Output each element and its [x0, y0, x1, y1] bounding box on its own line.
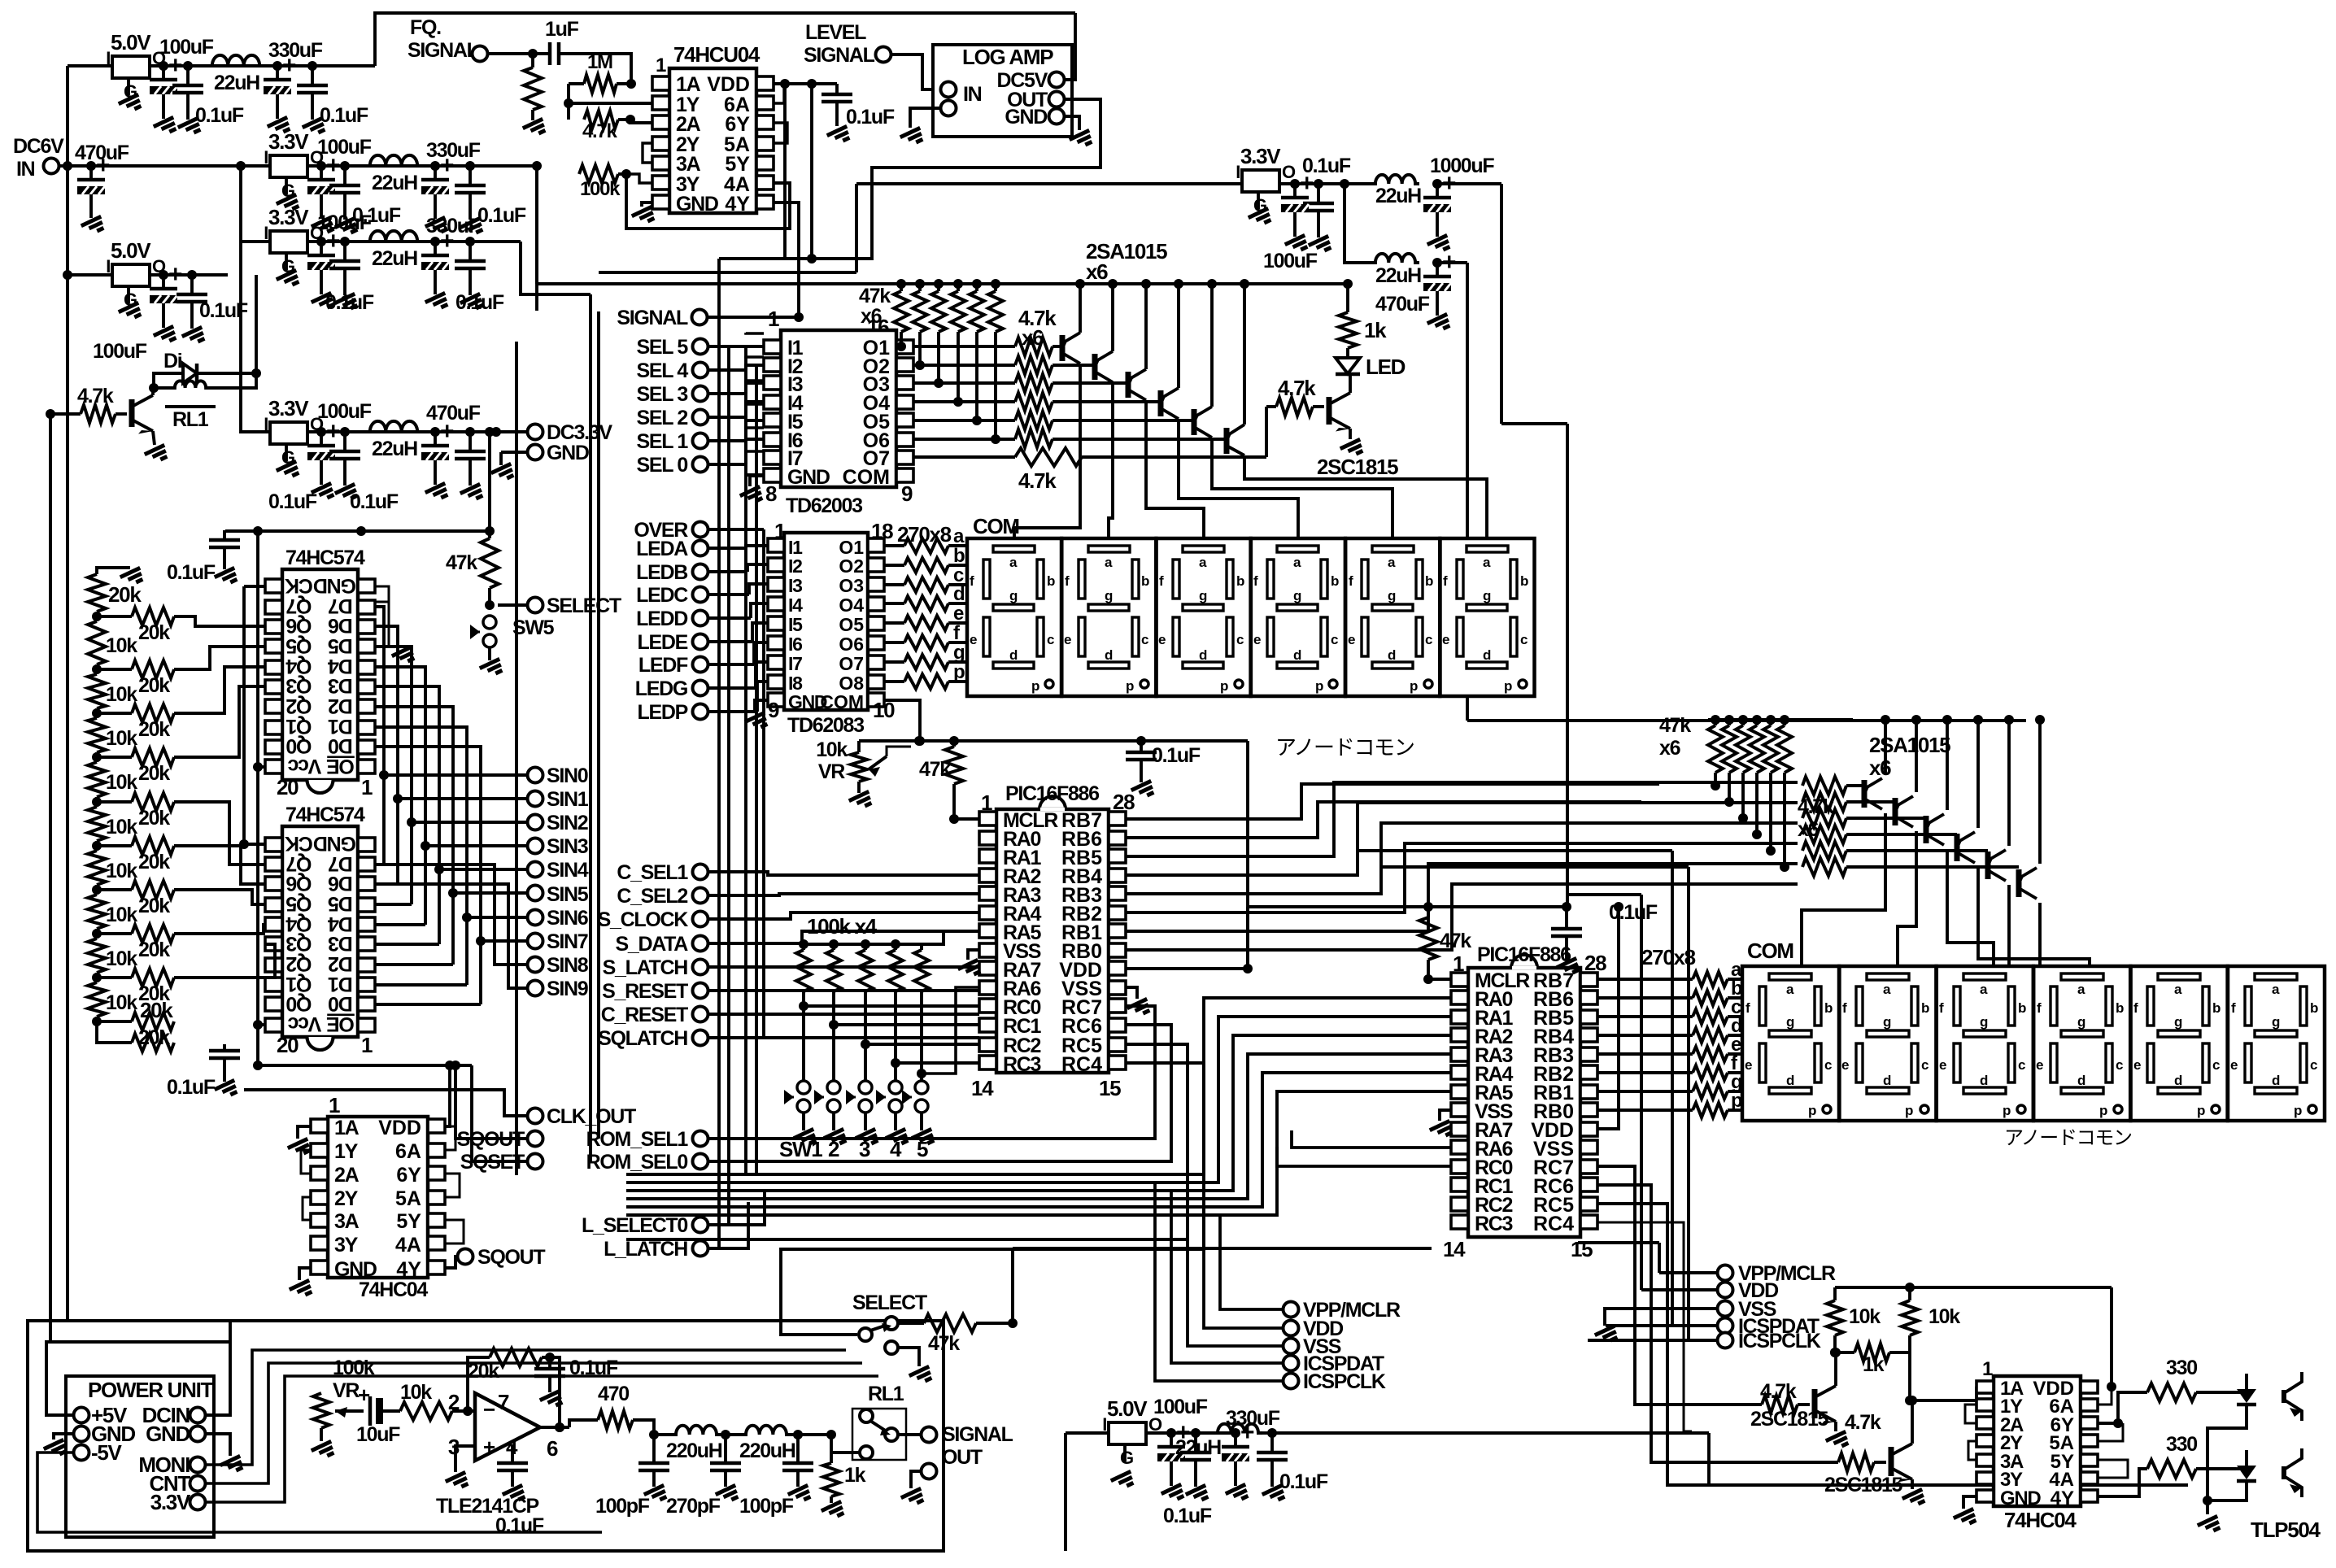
resistor 47k x6 #3: [931, 279, 946, 388]
label 100k x4: [807, 914, 878, 939]
node SQOUT terminal pair: [457, 1128, 543, 1151]
svg-text:1k: 1k: [844, 1464, 866, 1487]
wire tlp2 gnd: [2198, 1492, 2247, 1535]
svg-text:1k: 1k: [1863, 1353, 1885, 1376]
svg-text:Q5: Q5: [285, 892, 312, 915]
svg-text:p: p: [2003, 1103, 2011, 1118]
transistor 2SA1015 #2-2: [1894, 796, 1913, 827]
svg-text:d: d: [2272, 1073, 2280, 1088]
resistor 4.7k q2: [1838, 1411, 1886, 1471]
resistor 10k ladder 1: [88, 616, 137, 669]
transistor 2SA1015 #4: [1160, 388, 1179, 419]
svg-text:100uF: 100uF: [93, 340, 147, 363]
transistor 2SA1015 #1: [1061, 333, 1080, 364]
resistor 100k sw1: [796, 939, 811, 1087]
wire reg6 in: [599, 184, 1242, 272]
node DC6V IN terminal: [13, 135, 68, 181]
node LEDA terminal: [636, 538, 768, 560]
capacitor 330uF reg3: [421, 215, 481, 312]
svg-text:c: c: [1425, 632, 1432, 647]
svg-text:Vcc: Vcc: [287, 1013, 321, 1035]
resistor 10k ladder 6: [88, 846, 137, 890]
resistor 4.7k base #4: [1015, 393, 1161, 411]
svg-text:LEDB: LEDB: [636, 561, 687, 584]
svg-text:Q0: Q0: [286, 734, 312, 757]
svg-text:Q4: Q4: [285, 655, 312, 677]
IC 74HC04 #2: [1976, 1358, 2098, 1532]
resistor 47k2 #6: [1777, 715, 1792, 872]
wire VDD rail pic1: [859, 736, 1248, 746]
node VPP/MCLR right terminal: [1659, 1262, 1836, 1285]
node ICSPCLK left terminal: [1283, 1370, 1386, 1393]
wire ladder to 574b 5: [174, 846, 265, 884]
wire D1 route 2: [375, 647, 527, 904]
svg-text:DC3.3V: DC3.3V: [547, 421, 612, 444]
svg-text:22uH: 22uH: [214, 72, 259, 94]
svg-text:+: +: [326, 228, 340, 255]
capacitor 0.1uF reg1b: [297, 66, 368, 137]
svg-text:POWER UNIT: POWER UNIT: [88, 1378, 214, 1402]
svg-text:+: +: [326, 418, 340, 445]
svg-text:100pF: 100pF: [739, 1495, 794, 1518]
wire hcu04 right loops: [774, 84, 787, 143]
svg-text:1: 1: [1982, 1358, 1993, 1380]
svg-text:47k: 47k: [1659, 714, 1691, 737]
node LEDC terminal: [636, 584, 768, 607]
resistor 270 #2 seg p: [1597, 1090, 1745, 1117]
node OVER terminal: [634, 519, 764, 542]
svg-text:VDD: VDD: [707, 73, 750, 96]
svg-text:+: +: [440, 152, 454, 179]
wire pic2 left bundle 2: [626, 1035, 1451, 1191]
svg-text:9: 9: [901, 481, 913, 506]
label TLP504: [2251, 1518, 2321, 1542]
diode Di: [154, 275, 261, 388]
svg-text:4.7k: 4.7k: [1278, 376, 1316, 400]
ground TD62083: [745, 700, 769, 732]
svg-text:+: +: [1300, 170, 1314, 197]
svg-text:SIGNAL: SIGNAL: [407, 39, 479, 62]
svg-text:SIGNAL: SIGNAL: [942, 1423, 1013, 1446]
svg-text:47k: 47k: [919, 758, 951, 781]
op-amp TLE2141CP: [436, 1390, 558, 1518]
svg-text:3Y: 3Y: [334, 1234, 359, 1257]
capacitor 100pF #1: [595, 1430, 669, 1518]
svg-text:c: c: [1921, 1057, 1929, 1073]
node SIN2 terminal: [528, 812, 588, 834]
svg-text:b: b: [1331, 573, 1339, 589]
wire pic1 bundle 3: [1126, 843, 1798, 912]
label 47k x6: [859, 285, 891, 328]
svg-text:d: d: [1293, 647, 1301, 663]
node SIN1 terminal: [528, 788, 589, 811]
svg-text:b: b: [1236, 573, 1244, 589]
wire gnd574a: [375, 586, 416, 666]
svg-text:10k: 10k: [106, 904, 137, 926]
wire SEL jog 0: [746, 333, 764, 333]
resistor 47k2 #3: [1736, 715, 1750, 823]
wire SEL jog 4: [746, 425, 764, 428]
display 7seg row1 #4: [1251, 538, 1345, 696]
wire seg2 c to displays: [1745, 1015, 1754, 1018]
wire O2 row: [913, 364, 1015, 367]
svg-text:1A: 1A: [676, 73, 701, 96]
resistor 47k x6 #4: [951, 279, 965, 407]
node CNT powerunit: [149, 1471, 205, 1496]
svg-text:-5V: -5V: [91, 1440, 123, 1465]
node 3.3V powerunit: [150, 1490, 206, 1514]
wire hcu04 vdd: [774, 79, 837, 264]
wire pic2 rc5 down: [1597, 1204, 1709, 1485]
svg-text:b: b: [2212, 1000, 2221, 1016]
wire ladder to 574a 2: [174, 667, 265, 713]
svg-text:20k: 20k: [138, 851, 170, 873]
node DCIN powerunit: [142, 1403, 206, 1427]
svg-text:LEDC: LEDC: [636, 584, 688, 607]
svg-text:SIN6: SIN6: [547, 907, 588, 930]
svg-text:3.3V: 3.3V: [150, 1490, 191, 1514]
svg-text:GND: GND: [314, 832, 356, 855]
ground log amp in: [900, 108, 941, 147]
svg-text:p: p: [1410, 678, 1418, 694]
capacitor 0.1uF pic1: [1126, 741, 1201, 800]
wire ctrl5 to pic1: [708, 989, 979, 992]
svg-text:D2: D2: [329, 695, 353, 717]
wire D1 route 7: [375, 747, 527, 1004]
svg-text:OUT: OUT: [942, 1446, 983, 1469]
inductor 22uH reg6a: [1371, 175, 1421, 207]
capacitor 0.1uF reg6: [1302, 155, 1351, 255]
svg-text:g: g: [2272, 1014, 2280, 1030]
svg-text:D5: D5: [328, 634, 353, 657]
svg-text:GND: GND: [547, 442, 589, 464]
node C_SEL2 terminal: [617, 885, 708, 908]
svg-text:2SC1815: 2SC1815: [1317, 455, 1398, 479]
display 7seg row2 #5: [2131, 966, 2228, 1121]
wire O5 row: [913, 419, 1015, 422]
svg-text:3.3V: 3.3V: [1240, 144, 1281, 168]
svg-text:p: p: [2099, 1103, 2107, 1118]
capacitor 100uF reg5: [93, 261, 182, 363]
resistor 270 #2 seg b: [1597, 978, 1745, 1005]
svg-text:GND: GND: [146, 1422, 190, 1446]
svg-text:D7: D7: [329, 852, 353, 875]
resistor 270 #2 seg d: [1597, 1015, 1745, 1043]
resistor 4.7k2 base 6: [1802, 858, 2019, 876]
wire ck bus 574: [239, 586, 265, 849]
wire 74hc04a vdd: [253, 1061, 472, 1126]
wire D bus a1: [375, 625, 396, 628]
svg-text:6: 6: [547, 1436, 558, 1461]
svg-text:10k: 10k: [1929, 1305, 1960, 1328]
node MONI powerunit: [138, 1453, 205, 1477]
ground SW1: [794, 1113, 818, 1148]
svg-text:TD62083: TD62083: [787, 714, 864, 737]
svg-text:3.3V: 3.3V: [268, 396, 309, 420]
svg-text:g: g: [1388, 588, 1396, 603]
node SIGNAL OUT gnd terminal: [901, 1464, 937, 1509]
wire DC6V rail: [63, 161, 270, 171]
svg-text:LEDD: LEDD: [636, 608, 687, 630]
svg-text:p: p: [1126, 678, 1134, 694]
regulator 3.3V #2: [264, 129, 324, 214]
svg-text:O7: O7: [839, 653, 864, 674]
transistor 2SC1815 RL1drv: [132, 388, 169, 464]
resistor 4.7k2 base 1: [1802, 777, 1864, 795]
svg-text:g: g: [1293, 588, 1301, 603]
capacitor 0.1uF reg5: [177, 275, 248, 346]
IC 74HC574 #2: [265, 804, 375, 1057]
wire O1 row: [913, 345, 1015, 348]
wire pic1 rb7 route: [1126, 784, 1659, 819]
inductor 22uH reg4: [365, 421, 422, 460]
resistor 270 #2 seg a: [1597, 959, 1745, 987]
svg-text:0.1uF: 0.1uF: [477, 204, 526, 227]
svg-text:+: +: [282, 52, 296, 79]
transistor 2SA1015 #6: [1226, 425, 1244, 455]
wire icspL routes: [1155, 1183, 1283, 1381]
svg-text:g: g: [1199, 588, 1207, 603]
node VSS left terminal: [1283, 1335, 1341, 1358]
wire pic2 left bundle 5: [626, 1091, 1451, 1215]
svg-text:20k: 20k: [138, 621, 170, 644]
label 4.7k x6: [1018, 306, 1057, 350]
wire emitter2 up 5: [2004, 715, 2014, 846]
node GND powerunit R: [146, 1422, 205, 1446]
svg-text:0.1uF: 0.1uF: [455, 291, 504, 314]
svg-text:22uH: 22uH: [1375, 264, 1421, 287]
svg-text:4A: 4A: [395, 1234, 421, 1257]
node ICSPDAT left terminal: [1283, 1352, 1384, 1375]
svg-text:Q5: Q5: [285, 634, 312, 657]
svg-text:20k: 20k: [138, 674, 170, 697]
wire 1A feed: [1975, 1385, 1978, 1388]
svg-text:SELECT: SELECT: [547, 595, 621, 617]
svg-text:ICSPCLK: ICSPCLK: [1303, 1370, 1386, 1393]
wire 3.3V vcc drop: [225, 427, 495, 536]
svg-text:D4: D4: [328, 655, 353, 677]
svg-text:L_LATCH: L_LATCH: [604, 1238, 687, 1261]
wire branch 470uF: [1345, 184, 1421, 287]
svg-text:20: 20: [277, 775, 299, 799]
svg-text:DC6V: DC6V: [13, 135, 64, 158]
resistor 47k MCLR2: [1419, 902, 1471, 984]
resistor 20k branch 0: [97, 608, 174, 644]
wire I7 stub: [746, 473, 764, 477]
wire sw1 rc0: [799, 1001, 979, 1011]
wire pic1 bundle 0: [1126, 782, 1798, 856]
svg-text:3.3V: 3.3V: [268, 129, 309, 154]
wire sw top rail: [804, 931, 979, 944]
wire D2 route 0: [375, 865, 527, 965]
svg-text:0.1uF: 0.1uF: [495, 1514, 544, 1537]
svg-text:74HCU04: 74HCU04: [673, 42, 761, 67]
svg-text:D4: D4: [328, 912, 353, 935]
svg-text:VR: VR: [333, 1379, 360, 1402]
svg-text:+: +: [1240, 1419, 1254, 1446]
wire ladder to 574a 0: [174, 616, 265, 626]
svg-text:d: d: [953, 583, 965, 605]
svg-text:10k: 10k: [106, 816, 137, 838]
resistor 100k sw3: [858, 939, 873, 1087]
switch SW3: [846, 1081, 872, 1113]
svg-text:SEL 5: SEL 5: [636, 336, 688, 359]
wire O3 row: [913, 381, 1015, 385]
svg-text:C_SEL1: C_SEL1: [617, 861, 688, 884]
node ICSPDAT right terminal: [1606, 1315, 1820, 1338]
svg-text:RC4: RC4: [1061, 1053, 1102, 1076]
capacitor 470uF reg4: [421, 402, 481, 503]
svg-text:RL1: RL1: [868, 1383, 904, 1405]
wire pic2 ra6 route: [1292, 1130, 1451, 1148]
IC PIC16F886 #2: [1443, 943, 1606, 1261]
node ROM_SEL1 terminal: [586, 1128, 708, 1151]
wire D1 route 3: [375, 667, 527, 925]
wire pic1 rb6 route: [1126, 802, 1641, 838]
capacitor 100uF reg3: [307, 211, 372, 312]
wire pullup rail: [1835, 1287, 2112, 1387]
svg-text:OE: OE: [327, 755, 355, 777]
svg-text:ICSPCLK: ICSPCLK: [1738, 1330, 1821, 1352]
svg-text:e: e: [1158, 632, 1166, 647]
svg-text:100k x4: 100k x4: [807, 914, 878, 939]
svg-text:b: b: [1520, 573, 1528, 589]
svg-text:b: b: [1047, 573, 1055, 589]
svg-text:20k: 20k: [138, 807, 170, 830]
svg-text:COM: COM: [843, 466, 890, 489]
resistor 20k branch 9: [97, 1013, 174, 1049]
svg-text:Q7: Q7: [286, 595, 312, 617]
wire sw2 rc1: [829, 1020, 979, 1030]
transistor 2SA1015 #3: [1127, 369, 1146, 400]
wire SEL jog 3: [746, 402, 764, 404]
svg-text:100uF: 100uF: [1263, 250, 1318, 272]
wire ladder to 574a 3: [174, 686, 265, 757]
svg-text:d: d: [1883, 1073, 1891, 1088]
svg-text:0.1uF: 0.1uF: [167, 1076, 216, 1099]
node ladder 6: [92, 885, 102, 895]
svg-text:1Y: 1Y: [334, 1140, 359, 1163]
svg-text:1: 1: [361, 775, 373, 799]
svg-text:GND: GND: [2000, 1487, 2041, 1509]
resistor 270 seg d: [884, 583, 967, 611]
node VDD left terminal: [1283, 1318, 1344, 1340]
svg-text:4: 4: [890, 1137, 902, 1161]
wire pic1 bundle 5: [1126, 884, 1798, 950]
svg-text:c: c: [2212, 1057, 2220, 1073]
svg-text:I3: I3: [788, 575, 802, 596]
svg-text:d: d: [1980, 1073, 1988, 1088]
svg-text:O3: O3: [839, 575, 864, 596]
node CLK_OUT terminal: [528, 1105, 636, 1128]
svg-text:OE: OE: [327, 1013, 355, 1035]
ground SW5: [912, 1113, 936, 1148]
node S_DATA terminal: [615, 933, 708, 956]
resistor 47k2 #2: [1722, 715, 1737, 807]
node LEDB terminal: [636, 561, 768, 584]
svg-text:O6: O6: [839, 634, 864, 655]
resistor 4.7k base #3: [1015, 374, 1128, 392]
svg-text:p: p: [1220, 678, 1228, 694]
node L_SELECT0 terminal: [582, 1214, 708, 1237]
svg-text:10k: 10k: [1849, 1305, 1881, 1328]
svg-text:d: d: [1483, 647, 1491, 663]
wire emitter up #1: [1075, 279, 1085, 333]
resistor 10k ladder 4: [88, 757, 137, 802]
node ICSPCLK right terminal: [1588, 1330, 1821, 1352]
svg-text:0.1uF: 0.1uF: [350, 490, 399, 513]
resistor 270 #2 seg c: [1597, 996, 1745, 1024]
svg-text:アノードコモン: アノードコモン: [1275, 735, 1414, 760]
svg-text:0.1uF: 0.1uF: [320, 104, 368, 127]
wire dc5v up: [1064, 13, 1075, 80]
resistor 47k x6 #2: [913, 279, 927, 370]
wire pic2 vdd: [1597, 902, 1623, 1129]
wire q1 collector: [1831, 1348, 1841, 1386]
svg-text:10k: 10k: [106, 683, 137, 706]
svg-text:47k: 47k: [446, 551, 477, 574]
svg-text:I5: I5: [788, 614, 803, 635]
wire SEL jog 1: [746, 356, 764, 357]
wire sq bus: [455, 1065, 527, 1161]
resistor 4.7k O7: [1015, 448, 1266, 493]
wire pic1 rc5 route: [626, 1044, 1188, 1239]
wire pic2 left bundle 3: [626, 1054, 1451, 1199]
node S_LATCH terminal: [603, 956, 708, 979]
svg-text:c: c: [1331, 632, 1338, 647]
svg-text:D5: D5: [328, 892, 353, 915]
inductor 22uH reg1: [207, 55, 264, 94]
svg-text:p: p: [2197, 1103, 2205, 1118]
wire collector to COM #3: [1146, 400, 1204, 538]
svg-text:0.1uF: 0.1uF: [268, 490, 317, 513]
wire hc04b loops: [1965, 1382, 2128, 1478]
wire ladder top: [97, 568, 145, 587]
wire D2 route 1: [375, 884, 527, 988]
resistor 270 seg e: [884, 603, 967, 630]
label anode common row1: [1275, 735, 1414, 760]
box power area: [28, 1321, 944, 1551]
wire emitter up #2: [1108, 279, 1118, 351]
wire q1 emitter: [1826, 1422, 1850, 1451]
svg-text:+: +: [168, 261, 182, 288]
svg-text:0.1uF: 0.1uF: [846, 106, 895, 128]
wire O7 row: [913, 455, 1015, 459]
wire D bus a4: [375, 685, 438, 688]
svg-text:2: 2: [828, 1137, 839, 1161]
svg-text:D6: D6: [329, 872, 353, 895]
resistor 10k pullup2: [1902, 1283, 1960, 1405]
capacitor 0.1uF hcu04: [822, 84, 895, 146]
node GND powerunit L: [74, 1422, 136, 1446]
transistor 2SA1015 #2: [1094, 351, 1113, 382]
label 4.7k x6 #2: [1798, 795, 1834, 841]
resistor 100k sw2: [826, 939, 841, 1087]
wire ladder bottom 20k: [97, 998, 174, 1052]
svg-text:p: p: [1808, 1103, 1816, 1118]
capacitor 1uF series: [533, 18, 631, 84]
svg-text:S_RESET: S_RESET: [602, 980, 688, 1003]
node LEDD terminal: [636, 603, 768, 630]
display 7seg row1 #2: [1061, 538, 1156, 696]
svg-text:SIN8: SIN8: [547, 954, 589, 977]
VR 10k pic1: [816, 738, 911, 811]
svg-text:e: e: [970, 632, 977, 647]
svg-text:470: 470: [598, 1383, 629, 1405]
svg-text:g: g: [1105, 588, 1113, 603]
svg-text:GND: GND: [676, 193, 718, 216]
display 7seg row2 #1: [1742, 966, 1839, 1121]
